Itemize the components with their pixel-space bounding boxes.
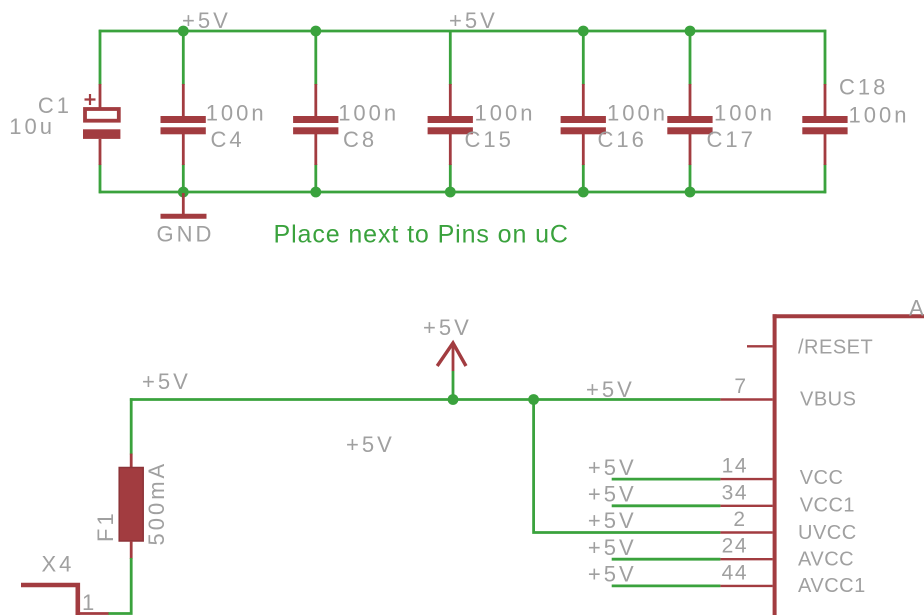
svg-text:+5V: +5V [588,482,637,507]
wire bottom GND rail [99,191,826,194]
capacitor C4 [161,84,267,165]
wire C8 branch top [314,31,317,85]
capacitor C18 [802,75,909,166]
wire C1 branch bottom [99,164,102,193]
pin UVCC 2 [588,508,857,544]
junction C15 bottom [445,187,456,198]
wire fuse to X4 [108,558,131,614]
svg-text:GND: GND [157,222,215,247]
capacitor C17 [667,84,775,165]
svg-text:AVCC: AVCC [798,549,854,571]
svg-text:VCC1: VCC1 [800,495,855,517]
wire C18 branch top [824,30,827,85]
junction at supply arrow [448,394,459,405]
junction C17 top [685,26,696,37]
svg-text:C16: C16 [598,127,647,152]
junction C4 top [178,26,189,37]
wire C4 branch top [182,31,185,85]
svg-text:+5V: +5V [182,8,231,33]
svg-text:C17: C17 [707,127,756,152]
capacitor C1 [9,84,120,165]
pin AVCC 24 [588,535,854,571]
svg-text:VBUS: VBUS [800,389,856,411]
svg-text:+5V: +5V [588,455,637,480]
wire C17 branch top [689,31,692,85]
svg-text:C18: C18 [839,75,888,100]
pin VCC1 34 [588,481,855,516]
svg-text:+5V: +5V [346,432,395,457]
pin VCC 14 [588,455,844,489]
wire C16 branch top [582,31,585,85]
wire UVCC drop [534,400,721,533]
svg-text:34: 34 [722,481,748,504]
pin AVCC1 44 [588,561,866,597]
svg-text:C4: C4 [211,127,245,152]
svg-text:A: A [909,296,924,321]
junction C8 bottom [310,187,321,198]
wire C17 branch bottom [689,164,692,192]
svg-text:2: 2 [733,508,746,531]
svg-text:500mA: 500mA [144,461,169,546]
svg-text:+5V: +5V [423,315,472,340]
junction C16 bottom [578,187,589,198]
svg-text:Place next to Pins on uC: Place next to Pins on uC [274,221,569,249]
fuse F1 [93,454,169,559]
svg-text:+5V: +5V [586,377,635,402]
svg-text:10u: 10u [9,114,55,139]
wire C18 branch bottom [824,164,827,193]
wire main +5V rail vertical [130,398,133,454]
wire C4 branch bottom [182,164,185,192]
capacitor C15 [428,84,536,165]
svg-text:7: 7 [734,375,747,398]
svg-text:VCC: VCC [800,467,844,489]
pin /RESET [747,337,873,359]
junction C16 top [578,26,589,37]
svg-text:100n: 100n [338,100,399,125]
svg-text:F1: F1 [93,510,118,542]
svg-text:AVCC1: AVCC1 [798,575,866,597]
svg-text:100n: 100n [714,100,775,125]
svg-text:C15: C15 [465,127,514,152]
svg-text:C8: C8 [343,127,377,152]
capacitor C8 [293,84,399,165]
wire C16 branch bottom [582,164,585,192]
wire C1 branch top [99,30,102,85]
junction C4 bottom [178,187,189,198]
svg-text:1: 1 [82,590,97,615]
svg-text:/RESET: /RESET [798,337,873,359]
wire main +5V rail horizontal [130,398,721,401]
wire C15 branch bottom [449,164,452,192]
supply +5V arrow [423,315,472,400]
svg-text:+5V: +5V [588,562,637,587]
wire C8 branch bottom [314,164,317,192]
ground [157,193,215,247]
svg-text:24: 24 [722,535,748,558]
connector X4 pin 1 [21,552,109,615]
svg-text:+5V: +5V [588,535,637,560]
pin VBUS 7 [586,375,856,411]
junction at UVCC drop [528,394,539,405]
svg-text:+5V: +5V [588,508,637,533]
svg-text:100n: 100n [849,103,910,128]
svg-text:14: 14 [722,455,748,478]
IC box U1 [773,296,924,615]
svg-text:+5V: +5V [449,8,498,33]
wire C15 branch top [449,31,452,85]
svg-text:100n: 100n [475,100,536,125]
svg-text:100n: 100n [206,100,267,125]
junction C17 bottom [685,187,696,198]
wire top +5V rail [99,30,826,33]
svg-text:+5V: +5V [142,369,191,394]
svg-text:UVCC: UVCC [798,522,857,544]
junction C8 top [310,26,321,37]
svg-text:100n: 100n [607,100,668,125]
capacitor C16 [561,84,668,165]
svg-text:44: 44 [722,561,748,584]
svg-text:X4: X4 [42,552,75,577]
